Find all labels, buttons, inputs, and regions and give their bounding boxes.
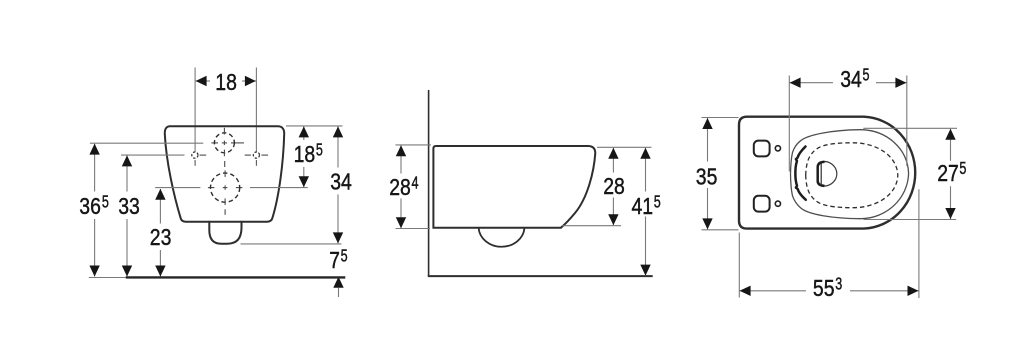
wire: 18.5 dimension line	[303, 126, 305, 187]
rim contour	[791, 130, 909, 219]
wire: 55.3 left extension	[738, 233, 740, 298]
node: label 18.5	[294, 140, 323, 168]
node: label 41.5	[632, 191, 661, 219]
wire: 28.4 bottom extension	[396, 228, 431, 230]
node: 28.4 top arrow	[396, 145, 406, 156]
node: 55.3 right arrow	[908, 286, 919, 296]
node: label 55.3	[813, 273, 842, 301]
node: 28.4 bottom arrow	[396, 217, 406, 228]
node: lower outlet hole (dashed circle)	[211, 173, 240, 202]
node: 18 left arrow	[196, 76, 207, 86]
svg-text:3: 3	[835, 273, 842, 293]
node: 28 top arrow	[608, 148, 618, 159]
node: 23 top arrow	[155, 189, 165, 200]
wire: 18 dim right extension line	[255, 68, 257, 166]
node: 41.5 bottom arrow	[640, 265, 650, 276]
svg-text:5: 5	[959, 158, 966, 178]
wire: thin floor extension left	[89, 277, 126, 279]
wire: lower hole vertical crosshair	[224, 170, 226, 214]
node: 18.5 bottom arrow	[299, 176, 309, 187]
wire: outlet bottom extension line	[241, 243, 342, 245]
wire: bolt hole crosshair right horizontal	[245, 154, 268, 156]
svg-text:5: 5	[341, 245, 348, 265]
node: 36.5 top arrow	[89, 144, 99, 155]
wire: 34.5 left extension	[788, 76, 790, 172]
node: label 36.5	[79, 191, 109, 219]
svg-text:4: 4	[412, 172, 419, 192]
node: 18.5 top arrow	[299, 126, 309, 137]
svg-text:7: 7	[329, 247, 340, 273]
node: label 7.5	[329, 245, 347, 273]
wire: 55.3 right extension	[918, 189, 920, 298]
outlet inner left line	[820, 162, 822, 185]
node: label 28.4	[389, 172, 418, 200]
outlet left thick edge	[818, 162, 825, 186]
wire: 28 dimension line	[612, 148, 614, 226]
node: 36.5 bottom arrow	[89, 266, 99, 277]
wire: 55.3 dimension line	[739, 290, 919, 292]
wire: 33 dimension line	[126, 156, 128, 277]
svg-text:34: 34	[330, 169, 352, 195]
floor line	[428, 275, 653, 277]
wire: 27.5 top extension	[863, 127, 957, 129]
node: 35 bottom arrow	[702, 218, 712, 229]
svg-text:5: 5	[654, 191, 661, 211]
node: right bolt hole	[253, 152, 259, 158]
wire: top hole vertical crosshair	[223, 128, 225, 167]
wire: 34 dimension line	[337, 126, 339, 243]
trap semicircle	[479, 228, 525, 247]
svg-text:23: 23	[150, 224, 172, 250]
wire: bolt hole crosshair left horizontal	[200, 154, 207, 156]
svg-text:28: 28	[389, 174, 411, 200]
wall line	[428, 90, 430, 276]
svg-text:18: 18	[294, 141, 316, 167]
svg-text:5: 5	[102, 191, 109, 211]
node: 34 bottom arrow	[333, 232, 343, 243]
node: 35 top arrow	[702, 118, 712, 129]
node: fixing circle top	[775, 146, 780, 151]
outlet spigot	[209, 221, 241, 244]
node: label 27.5	[937, 158, 966, 186]
wire: 27.5 dimension line	[950, 129, 952, 219]
flush rim crescent	[795, 147, 805, 200]
wire: 27.5 bottom extension	[864, 219, 957, 221]
wire: 34.5 dimension line	[789, 82, 907, 84]
wire: 35 dimension line	[707, 118, 709, 229]
wire: lower hole centerline / 23 and 18.5 extension	[155, 187, 308, 189]
outlet keyhole shape	[818, 162, 837, 187]
toilet body front outline	[165, 126, 284, 221]
svg-text:41: 41	[632, 193, 654, 219]
node: 28 bottom arrow	[608, 214, 618, 225]
toilet body side outline	[433, 146, 595, 228]
node: 7.5 up arrow below floor	[333, 277, 343, 297]
node: 27.5 top arrow	[945, 129, 955, 140]
wire: 35 bottom extension	[702, 229, 739, 231]
wire: 28.4 top extension	[396, 144, 432, 146]
svg-text:27: 27	[937, 160, 959, 186]
node: fixing circle bottom	[775, 201, 780, 206]
node: 34 top arrow	[333, 126, 343, 137]
node: 18 right arrow	[245, 76, 256, 86]
wire: 18 dim left extension line	[194, 68, 196, 166]
svg-text:35: 35	[696, 164, 718, 190]
node: 55.3 left arrow	[740, 286, 751, 296]
svg-text:5: 5	[863, 64, 870, 84]
node: 23 bottom arrow	[155, 266, 165, 277]
node: fixing square bottom	[754, 196, 770, 212]
svg-text:36: 36	[79, 193, 101, 219]
wire: 28 bottom extension	[562, 225, 621, 227]
wire: horizontal centerline through top hole / 36.5 extension	[90, 142, 244, 144]
node: 41.5 top arrow	[640, 148, 650, 159]
node: top flush hole (dashed circle)	[214, 133, 234, 153]
node: 27.5 bottom arrow	[945, 208, 955, 219]
wire: 18 dimension line	[195, 80, 256, 82]
svg-text:28: 28	[603, 173, 625, 199]
node: left bolt hole	[192, 152, 198, 158]
svg-text:55: 55	[813, 275, 835, 301]
toilet outer outline top view	[739, 117, 915, 229]
wire: 41.5 dimension line	[645, 148, 647, 276]
wire: top extension right of body	[597, 146, 652, 148]
wire: 23 dimension line	[159, 189, 161, 277]
wire: floor line (thick)	[126, 276, 346, 278]
inner bowl dashed ellipse	[806, 143, 898, 208]
wire: body top extension line right	[286, 125, 343, 127]
node: 33 bottom arrow	[122, 266, 132, 277]
node: 33 top arrow	[122, 155, 132, 166]
node: fixing square top	[754, 141, 770, 157]
node: label 34.5	[840, 64, 869, 92]
svg-text:18: 18	[215, 69, 237, 95]
node: 34.5 right arrow	[895, 78, 906, 88]
svg-text:5: 5	[316, 140, 323, 160]
wire: 34.5 right extension	[906, 76, 908, 167]
wire: 33 extension / bolt hole level line	[121, 154, 185, 156]
node: 34.5 left arrow	[790, 78, 801, 88]
wire: 36.5 dimension line	[94, 144, 96, 277]
svg-text:34: 34	[840, 66, 862, 92]
wire: 28.4 dimension line	[400, 145, 402, 228]
wire: 35 top extension	[702, 117, 739, 119]
svg-text:33: 33	[118, 193, 140, 219]
